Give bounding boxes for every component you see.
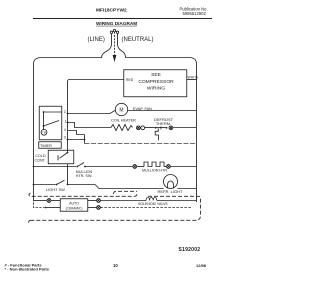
svg-text:AUTO: AUTO	[69, 202, 79, 206]
svg-text:THERM.: THERM.	[156, 121, 171, 126]
svg-text:RED: RED	[126, 78, 134, 82]
svg-text:* - Non-Illustrated Parts: * - Non-Illustrated Parts	[5, 266, 50, 271]
svg-text:MFI18CPYW2: MFI18CPYW2	[96, 8, 127, 14]
svg-text:WIRING: WIRING	[147, 86, 165, 92]
svg-text:COIL HEATER: COIL HEATER	[111, 118, 136, 122]
svg-text:WIRING DIAGRAM: WIRING DIAGRAM	[96, 21, 137, 26]
svg-text:HTR. SW.: HTR. SW.	[76, 174, 92, 178]
svg-text:EVAP. FAN: EVAP. FAN	[133, 107, 152, 111]
svg-text:COMPRESSOR: COMPRESSOR	[138, 79, 174, 85]
svg-text:TM: TM	[42, 130, 46, 134]
svg-text:LIGHT SW.: LIGHT SW.	[46, 187, 66, 192]
svg-text:5995512902: 5995512902	[183, 11, 207, 16]
svg-text:TIMER: TIMER	[40, 144, 52, 148]
svg-text:(CERAMIC): (CERAMIC)	[66, 207, 83, 211]
svg-text:M: M	[119, 108, 123, 114]
svg-text:SOLENOID VALVE: SOLENOID VALVE	[138, 202, 168, 206]
svg-text:4: 4	[64, 128, 66, 132]
svg-text:3: 3	[64, 136, 66, 140]
svg-text:S192002: S192002	[179, 247, 201, 253]
svg-text:(NEUTRAL): (NEUTRAL)	[122, 37, 154, 43]
svg-text:12/98: 12/98	[196, 263, 207, 268]
svg-text:SEE: SEE	[151, 72, 162, 78]
svg-text:CONT.: CONT.	[34, 159, 45, 163]
svg-text:WHITE: WHITE	[188, 75, 200, 79]
svg-text:MULLION HTR.: MULLION HTR.	[142, 169, 168, 173]
svg-text:REFR. LIGHT: REFR. LIGHT	[158, 189, 183, 194]
svg-text:(LINE): (LINE)	[88, 37, 105, 43]
svg-text:10: 10	[113, 263, 118, 268]
svg-text:2: 2	[64, 110, 66, 114]
svg-text:1: 1	[65, 120, 67, 124]
